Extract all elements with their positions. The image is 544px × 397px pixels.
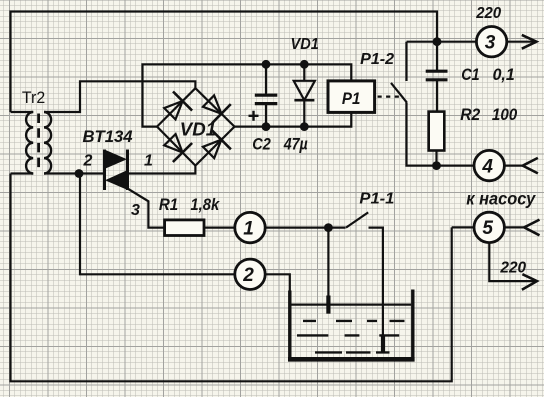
svg-text:0,1: 0,1 (493, 65, 515, 84)
svg-text:4: 4 (481, 156, 493, 177)
svg-text:P1-1: P1-1 (359, 190, 394, 207)
svg-text:C2: C2 (252, 135, 271, 154)
svg-text:P1: P1 (342, 90, 361, 108)
svg-text:2: 2 (83, 153, 93, 170)
svg-text:3: 3 (131, 202, 140, 219)
svg-text:2: 2 (242, 265, 254, 286)
svg-text:220: 220 (499, 260, 526, 277)
svg-text:R2: R2 (460, 105, 480, 124)
svg-text:VD1: VD1 (291, 36, 319, 53)
svg-text:C1: C1 (461, 65, 479, 84)
svg-text:R1: R1 (159, 195, 178, 214)
svg-text:BT134: BT134 (83, 127, 134, 146)
svg-text:Tr2: Tr2 (22, 89, 45, 107)
svg-text:1: 1 (144, 152, 153, 169)
svg-text:1,8k: 1,8k (190, 195, 220, 214)
svg-text:5: 5 (482, 218, 493, 239)
svg-text:к насосу: к насосу (466, 188, 536, 208)
svg-text:100: 100 (492, 105, 518, 124)
svg-text:3: 3 (485, 33, 496, 54)
svg-text:VD1: VD1 (180, 119, 216, 139)
svg-text:47µ: 47µ (283, 135, 308, 154)
svg-text:1: 1 (243, 218, 254, 239)
svg-text:P1-2: P1-2 (360, 51, 394, 68)
svg-text:220: 220 (475, 5, 501, 22)
